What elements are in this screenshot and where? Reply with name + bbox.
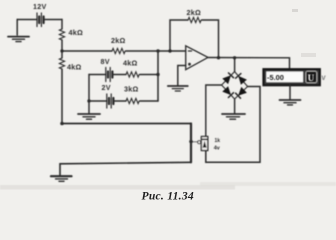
svg-text:12V: 12V: [33, 2, 47, 11]
diode D1 (upper-left): [222, 75, 231, 84]
node: divider mid junction: [60, 49, 63, 52]
wire: top rail from ground to battery to divider: [17, 19, 37, 21]
resistor R3 2k (horizontal, input): [112, 48, 125, 53]
resistor R5 4k (8V branch): [126, 72, 139, 77]
diode bridge outline: [222, 72, 248, 99]
svg-text:2V: 2V: [102, 83, 111, 92]
svg-text:1k: 1k: [215, 138, 221, 144]
node: rail at 8V branch: [156, 73, 159, 76]
wire: left rail x=62 top segment: [61, 20, 63, 30]
ground G6: [51, 176, 72, 181]
smudge streak bottom right: [200, 182, 336, 186]
battery V2 8V: [106, 68, 113, 82]
node: bridge drop junction: [233, 56, 236, 59]
node: 2V branch junction: [87, 99, 90, 102]
smudge streak bottom left: [0, 185, 235, 190]
wire: [140, 100, 158, 102]
meter M1: [264, 69, 320, 85]
ground G4: [280, 100, 301, 105]
svg-text:4v: 4v: [214, 146, 220, 152]
wire: bridge bottom to ground G5: [234, 99, 236, 113]
node at bottom of rail: [60, 122, 64, 126]
wire: feedback loop: [170, 20, 188, 51]
svg-text:4kΩ: 4kΩ: [67, 63, 82, 72]
wire: bottom return to ground G6: [60, 162, 191, 175]
wire: [112, 74, 126, 76]
wire: 8V branch left: [89, 74, 106, 76]
resistor R6 3k (2V branch): [126, 98, 139, 103]
wire to op-amp minus input: [126, 50, 186, 52]
diode D4 (lower-right): [238, 87, 247, 96]
wire: meter bottom to ground G4: [289, 85, 291, 99]
svg-text:4kΩ: 4kΩ: [69, 28, 84, 37]
wire: mid rail x=158: [157, 51, 159, 101]
svg-text:8V: 8V: [101, 57, 110, 66]
diode D3 (lower-left): [222, 86, 231, 95]
wire: bridge left to box: [206, 85, 222, 137]
svg-text:4kΩ: 4kΩ: [123, 59, 138, 68]
wire: down to bridge top: [234, 58, 236, 72]
svg-text:2kΩ: 2kΩ: [187, 8, 202, 17]
wire: [61, 40, 63, 51]
wire: [113, 100, 126, 102]
svg-text:U: U: [308, 73, 315, 83]
battery V3 2V: [107, 94, 114, 108]
wire: down to ground G1: [16, 20, 18, 36]
node: feedback tap: [168, 49, 171, 52]
ground G3: [168, 86, 188, 91]
indicator box component: [201, 137, 207, 151]
resistor R4 2k (feedback): [188, 17, 201, 22]
wire: op-amp output: [208, 58, 290, 70]
ground G2: [78, 114, 100, 119]
node: rail top: [156, 49, 159, 52]
svg-text:-5.00: -5.00: [267, 73, 284, 82]
wire: [61, 51, 63, 58]
svg-text:3kΩ: 3kΩ: [124, 85, 139, 94]
faint speck top right: [292, 9, 298, 12]
op-amp minus mark: [188, 50, 191, 52]
svg-text:Рис. 11.34: Рис. 11.34: [142, 190, 194, 203]
wire: plus input to ground G3: [178, 66, 186, 86]
battery V1 12V: [37, 13, 44, 27]
wire: net-A horizontal and down: [62, 123, 191, 125]
op-amp plus mark: [188, 63, 191, 66]
faint speck above meter: [301, 53, 316, 57]
wire: branch left rail down to ground G2: [88, 75, 90, 114]
connector circle: [198, 141, 201, 144]
node: box tap: [189, 140, 193, 144]
resistor R1 4k (vertical): [59, 29, 64, 40]
wire: box bottom loop to bridge right: [206, 87, 260, 163]
wire: 2V branch left: [89, 100, 107, 102]
resistor R2 4k (vertical): [59, 58, 64, 69]
wire: input line y=51: [62, 50, 112, 52]
wire: feedback right side down to output: [202, 20, 219, 58]
diode D2 (upper-right): [238, 76, 247, 85]
svg-text:2kΩ: 2kΩ: [111, 36, 126, 45]
ground (top-left): [8, 37, 29, 42]
node: feedback/output junction: [217, 56, 220, 59]
op-amp U1: [186, 46, 208, 70]
wire: rail down to bottom net: [61, 69, 63, 124]
wire: stub to connector circle: [191, 141, 198, 143]
wire: [140, 74, 158, 76]
ground G5: [222, 114, 245, 119]
svg-text:v: v: [321, 73, 326, 82]
